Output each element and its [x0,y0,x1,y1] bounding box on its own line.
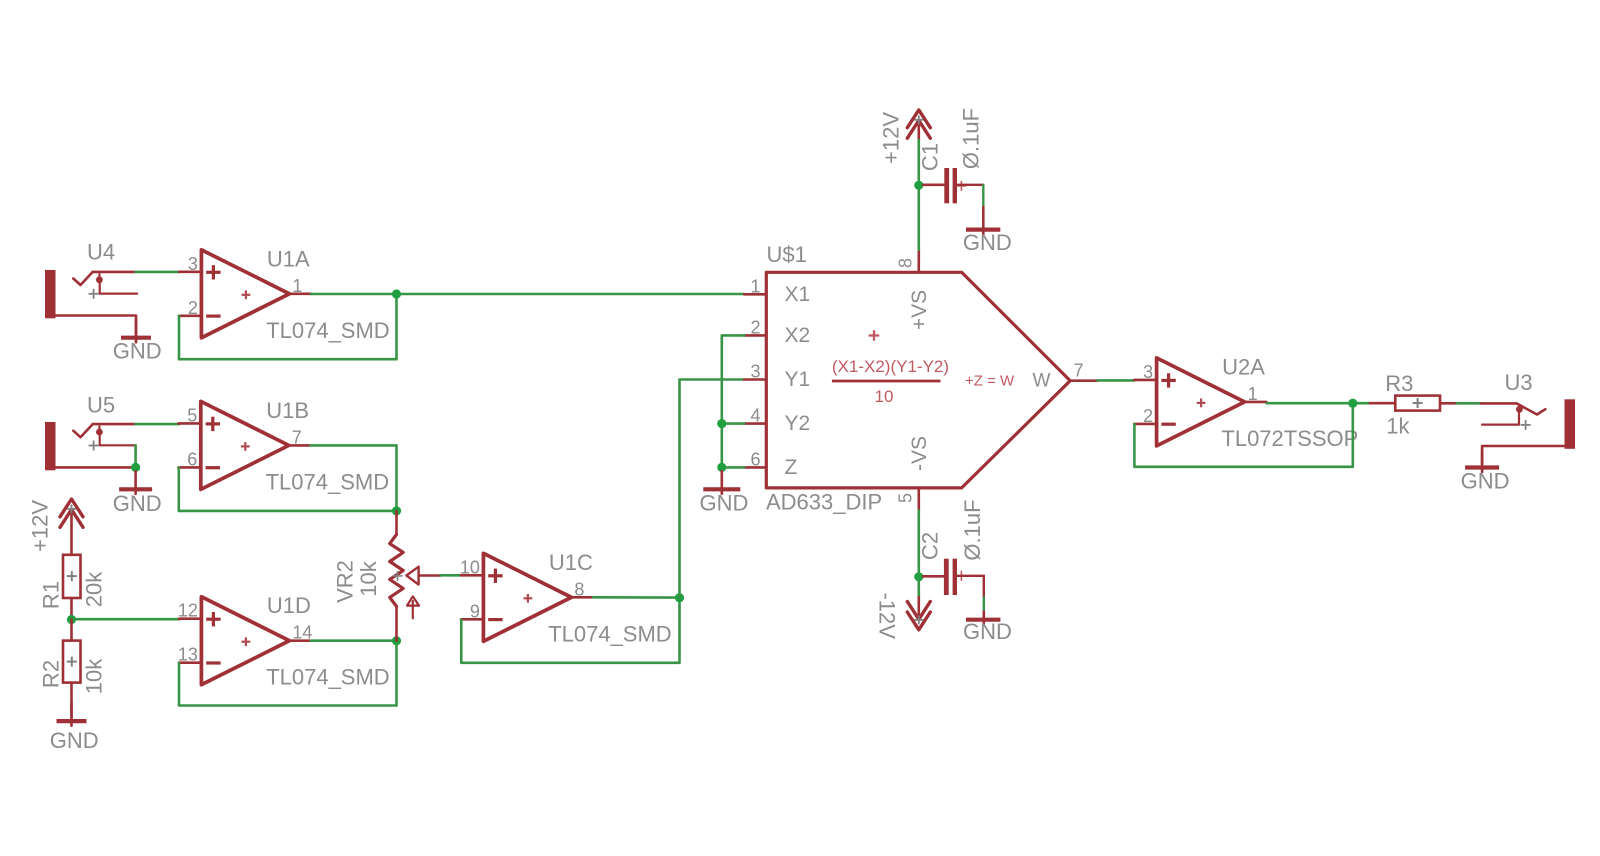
svg-text:10k: 10k [82,658,107,694]
svg-text:3: 3 [1143,362,1153,382]
wire U1B output to VR2 top [311,445,397,511]
junction U1C output node [675,593,684,602]
svg-text:U4: U4 [87,240,115,265]
svg-text:TL072TSSOP: TL072TSSOP [1221,426,1358,451]
svg-text:20k: 20k [82,571,107,607]
wire U5 switch contact to ground node [134,445,137,467]
capacitor C2 0.1uF [918,499,986,611]
svg-text:U3: U3 [1505,370,1533,395]
wire X2/Y2/Z ground bus [722,335,744,467]
svg-text:+12V: +12V [879,112,904,164]
svg-text:2: 2 [1143,406,1153,426]
wire pin 5 to -12V [917,510,920,597]
svg-text:6: 6 [750,449,760,469]
svg-text:1: 1 [750,276,760,296]
svg-text:10k: 10k [356,560,381,596]
ground GND at U5 [113,471,162,516]
junction C1 node [914,181,923,190]
svg-text:U1D: U1D [267,593,311,618]
junction C2 node [914,572,923,581]
junction U1A output node [392,289,401,298]
wire R3 to U3 [1457,402,1481,405]
svg-text:C1: C1 [918,143,943,171]
svg-text:X1: X1 [785,283,811,306]
svg-text:GND: GND [963,230,1012,255]
capacitor C1 0.1uF [918,108,984,207]
svg-text:AD633_DIP: AD633_DIP [766,490,882,515]
svg-text:-12V: -12V [875,592,900,639]
junction VR2 bottom node [392,636,401,645]
svg-text:5: 5 [187,405,197,425]
svg-text:TL074_SMD: TL074_SMD [548,621,672,646]
svg-text:TL074_SMD: TL074_SMD [266,665,390,690]
svg-text:W: W [1033,371,1051,392]
wire U5 tip to U1B pin 5 [136,423,180,426]
svg-text:14: 14 [292,623,312,643]
resistor R2 10k [39,620,107,718]
svg-text:U1C: U1C [549,550,593,575]
resistor R3 1k [1370,371,1457,439]
svg-text:12: 12 [178,601,198,621]
connector U3 (audio jack, mirrored) [1481,370,1575,464]
svg-text:TL074_SMD: TL074_SMD [266,318,390,343]
op-amp U1A [179,246,390,343]
svg-text:8: 8 [896,258,916,268]
svg-text:Y1: Y1 [785,368,811,391]
wire U1D output to VR2 bottom [311,639,397,642]
svg-text:R1: R1 [39,581,64,609]
wire U1A feedback (pin 2 loop) [179,294,397,359]
svg-text:+Z = W: +Z = W [965,373,1015,390]
svg-text:U$1: U$1 [767,242,807,267]
ground GND at C1 [963,207,1012,255]
svg-text:Y2: Y2 [785,412,811,435]
svg-text:GND: GND [113,491,162,516]
svg-text:4: 4 [750,406,760,426]
ground GND at AD633 [700,471,749,515]
svg-text:5: 5 [896,493,916,503]
svg-text:3: 3 [188,254,198,274]
svg-text:2: 2 [188,298,198,318]
svg-text:-VS: -VS [908,436,931,471]
wire Y1 net (vertical + into pin 3) [680,380,745,598]
svg-text:7: 7 [292,427,302,447]
junction Y2 node [717,419,726,428]
power +12V supply arrow at pin 8 [879,110,931,164]
svg-text:R2: R2 [39,660,64,688]
junction U5 ground node [131,463,140,472]
potentiometer VR2 10k [333,511,441,641]
wire U1A output to X1 [311,293,744,296]
ground GND at U4 [113,320,162,364]
svg-text:9: 9 [470,601,480,621]
svg-text:GND: GND [700,491,749,516]
svg-text:TL074_SMD: TL074_SMD [266,469,390,494]
connector U4 (audio jack) [45,240,137,342]
svg-text:X2: X2 [785,324,811,347]
svg-text:13: 13 [178,645,198,665]
svg-text:GND: GND [50,728,99,753]
ground GND at C2 [963,612,1012,645]
op-amp U1D [178,593,390,690]
svg-text:+VS: +VS [908,290,931,330]
svg-text:1k: 1k [1386,414,1410,439]
wire U2A output to R3 [1266,402,1370,405]
wire divider to U1D pin 12 [76,618,179,621]
svg-text:U2A: U2A [1222,354,1265,379]
junction R1/R2 divider node [67,615,76,624]
svg-text:U1A: U1A [267,246,310,271]
svg-text:GND: GND [113,339,162,364]
svg-text:R3: R3 [1385,371,1413,396]
ground GND at U3 [1461,450,1510,494]
junction VR2 top node [392,506,401,515]
junction U2A output node [1348,399,1357,408]
wire U2A feedback (pin 2 loop) [1134,403,1352,467]
op-amp U1B [178,398,389,495]
power +12V supply arrow at R1 [28,499,84,555]
svg-text:1: 1 [1248,384,1258,404]
power -12V supply arrow [875,592,931,639]
svg-text:7: 7 [1074,361,1084,381]
wire +12V to pin 8 [917,140,920,250]
svg-text:GND: GND [963,619,1012,644]
svg-text:8: 8 [574,579,584,599]
multiplier U$1 AD633_DIP [744,242,1097,515]
svg-text:6: 6 [187,449,197,469]
wire W output to U2A pin 3 [1098,379,1135,382]
wire U1D feedback (pin 13 loop) [179,641,397,706]
svg-text:GND: GND [1461,469,1510,494]
svg-text:3: 3 [750,362,760,382]
wire U4 tip to U1A pin 3 [136,271,180,274]
wire U1C output to Y1 [593,596,679,599]
connector U5 (audio jack) [45,393,136,471]
svg-text:10: 10 [460,557,480,577]
op-amp U2A [1134,354,1358,451]
svg-text:+12V: +12V [28,500,53,552]
svg-text:2: 2 [750,317,760,337]
svg-text:(X1-X2)(Y1-Y2): (X1-X2)(Y1-Y2) [832,357,949,376]
ground GND at R2 [50,703,99,753]
wire U1B feedback (pin 6 loop) [179,468,397,511]
op-amp U1C [460,550,672,647]
svg-text:U5: U5 [87,393,115,418]
svg-text:VR2: VR2 [333,560,358,603]
svg-text:Z: Z [785,456,798,479]
svg-text:Ø.1uF: Ø.1uF [960,499,985,560]
svg-text:1: 1 [292,276,302,296]
resistor R1 20k [39,555,107,620]
wire VR2 wiper to U1C pin 10 [441,574,462,577]
svg-text:Ø.1uF: Ø.1uF [959,108,984,169]
svg-text:10: 10 [875,387,894,406]
wire U1C feedback (pin 9 loop) [461,598,679,663]
svg-text:C2: C2 [918,532,943,560]
junction Z node [717,463,726,472]
svg-text:U1B: U1B [266,398,309,423]
